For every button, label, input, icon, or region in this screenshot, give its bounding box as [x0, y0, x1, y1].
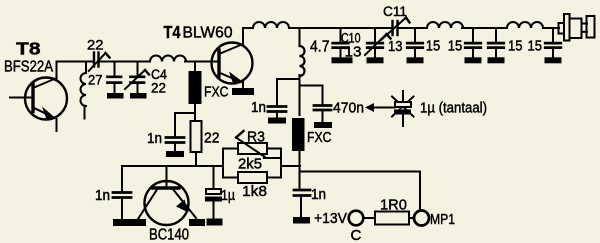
arrow to tantalum	[365, 103, 395, 112]
svg-text:+13V: +13V	[314, 210, 347, 227]
svg-text:1n: 1n	[251, 99, 266, 116]
ground	[166, 151, 184, 157]
wire pot loop right	[280, 149, 282, 178]
transistor BC140	[138, 166, 196, 225]
trimmer capacitor 22 (series)	[89, 53, 110, 72]
ground	[113, 219, 130, 226]
wire rail2 left	[57, 61, 94, 63]
svg-text:1R0: 1R0	[380, 197, 407, 214]
capacitor 1u tantalum	[392, 91, 414, 126]
svg-text:C: C	[351, 227, 362, 243]
svg-text:1µ (tantaal): 1µ (tantaal)	[420, 100, 487, 117]
capacitor 1n (T4 supply)	[268, 107, 286, 118]
ground	[545, 57, 562, 63]
coax output connector	[559, 14, 595, 41]
trimmer capacitor C4	[125, 62, 149, 94]
inductor output filter 1	[427, 22, 463, 28]
svg-text:T4: T4	[164, 22, 181, 42]
svg-text:22: 22	[151, 80, 166, 96]
ground	[314, 122, 332, 128]
wire rail2 mid	[99, 61, 151, 63]
svg-text:2k5: 2k5	[238, 156, 262, 173]
ground	[488, 57, 505, 63]
ground	[130, 93, 147, 99]
resistor 22	[191, 121, 202, 166]
wire loop to FXC node	[281, 165, 300, 167]
capacitor 27pF-section to ground	[108, 62, 122, 94]
capacitor 1n (supply bottom)	[294, 190, 310, 217]
inductor 4.7uH (vertical, bumps right)	[300, 28, 305, 76]
resistor 1R0	[375, 212, 409, 225]
wire top rail	[289, 27, 392, 29]
capacitor 15p (1)	[407, 28, 423, 57]
wire to 1n decoupler	[277, 76, 300, 105]
wire bias bus	[122, 165, 223, 167]
svg-text:T8: T8	[16, 39, 41, 59]
ground	[207, 219, 223, 226]
svg-text:15: 15	[448, 38, 463, 55]
terminal MP1	[414, 211, 429, 226]
trimmer capacitor C11 (series)	[381, 18, 410, 41]
capacitor 1n (left bias)	[113, 166, 131, 219]
ground	[293, 217, 310, 224]
svg-text:15: 15	[508, 38, 523, 55]
wire T4 collector	[243, 27, 253, 29]
wire pot loop left	[222, 149, 224, 178]
ground	[268, 118, 286, 124]
transistor T4	[212, 28, 253, 88]
svg-text:22: 22	[87, 37, 104, 53]
svg-text:C11: C11	[383, 4, 407, 19]
svg-text:1n: 1n	[147, 130, 162, 147]
wire to 470n	[300, 79, 323, 104]
ground BC140 right	[189, 219, 205, 226]
trimmer capacitor 13p	[365, 28, 391, 57]
svg-text:BC140: BC140	[149, 227, 189, 243]
svg-text:FXC: FXC	[204, 84, 229, 101]
svg-text:MP1: MP1	[430, 211, 455, 228]
svg-text:27: 27	[88, 72, 103, 88]
inductor output filter 2	[507, 22, 543, 28]
svg-text:1n: 1n	[95, 187, 110, 204]
wire	[462, 27, 507, 29]
svg-text:BFS22A: BFS22A	[4, 59, 53, 76]
svg-text:13: 13	[345, 44, 362, 61]
svg-text:470n: 470n	[333, 100, 364, 117]
svg-text:22: 22	[204, 130, 220, 147]
capacitor 470n	[314, 106, 331, 123]
ground	[332, 57, 353, 63]
svg-text:4.7: 4.7	[310, 39, 330, 56]
capacitor 1n (base bias decoupling)	[166, 138, 184, 152]
capacitor C10 13p	[333, 28, 349, 57]
wire	[543, 27, 559, 29]
svg-text:FXC: FXC	[307, 129, 332, 146]
choke FXC 1	[189, 62, 202, 122]
capacitor 15p (2)	[465, 28, 481, 57]
choke FXC 2	[292, 75, 305, 189]
resistor 1k8	[223, 172, 281, 183]
svg-text:BLW60: BLW60	[183, 25, 233, 42]
svg-text:13: 13	[388, 38, 403, 55]
transistor T8	[10, 62, 67, 132]
potentiometer R3 2k5	[223, 131, 281, 158]
svg-text:1n: 1n	[311, 186, 326, 203]
ground BC140 left	[130, 219, 146, 226]
capacitor 15p (3)	[488, 28, 504, 57]
ground	[407, 57, 424, 63]
wire	[363, 217, 375, 219]
wire top rail right of C11	[398, 27, 428, 29]
capacitor 15p (4)	[545, 28, 561, 57]
wire FXC1 to 1n tap	[175, 113, 195, 136]
wire supply run to MP1	[300, 172, 421, 211]
ground	[465, 57, 482, 63]
ground	[107, 93, 124, 99]
terminal C	[349, 211, 364, 226]
inductor T4 base (horizontal, 3 bumps)	[150, 56, 186, 62]
wire	[409, 217, 414, 219]
ground	[367, 57, 384, 63]
ground T4 emitter	[232, 88, 254, 95]
svg-text:15: 15	[528, 38, 543, 55]
svg-text:R3: R3	[247, 129, 265, 146]
svg-text:15: 15	[426, 38, 441, 55]
capacitor 1u electrolytic	[205, 166, 222, 219]
inductor 27 (vertical, bumps left)	[81, 62, 87, 119]
svg-text:1k8: 1k8	[242, 183, 267, 200]
svg-text:1µ: 1µ	[221, 187, 235, 204]
wire to T4 base	[185, 61, 218, 63]
inductor collector (3 bumps)	[253, 22, 289, 28]
